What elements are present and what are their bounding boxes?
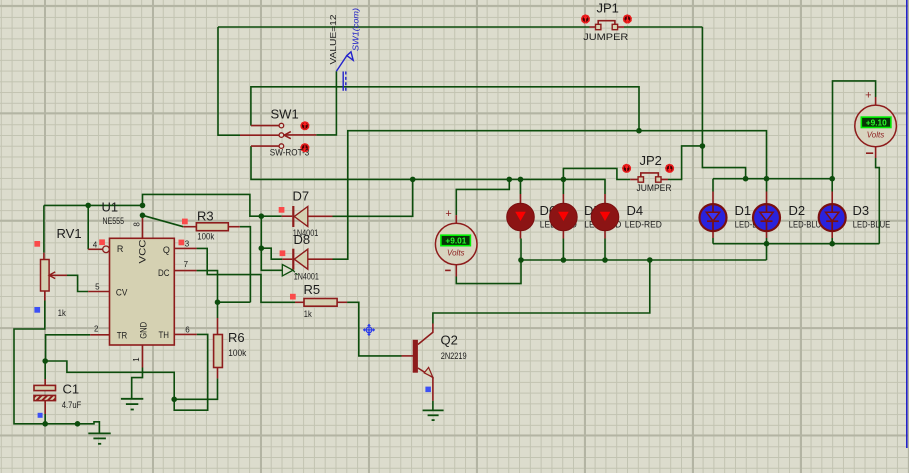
marker red square R3 (182, 219, 188, 225)
pin stub U1 pin8 (142, 215, 144, 238)
wire TH pin6 down to node (174, 334, 208, 410)
pin stub SW1 top contact (251, 125, 279, 127)
svg-text:1k: 1k (58, 308, 66, 319)
wire SW1 common drop (218, 27, 240, 135)
jumper JP2 right pin (656, 177, 661, 182)
pin stub RV1 top (43, 253, 45, 260)
svg-text:4.7uF: 4.7uF (62, 400, 82, 411)
pin stub VM2 plus (875, 97, 877, 105)
svg-text:Q2: Q2 (441, 333, 458, 348)
pin stub U1 pin7 (174, 270, 196, 272)
pin stub JP1 left (590, 26, 596, 28)
sheet border (906, 0, 908, 448)
wire blue rail to red rail link (766, 244, 768, 260)
pin stub SW1 bottom contact (251, 145, 279, 147)
pin stub D3 bottom (831, 231, 833, 239)
junction D8 cathode (259, 245, 265, 251)
pin stub D5 top (562, 194, 564, 204)
pin stub D6 bottom (520, 230, 522, 239)
wire D2 anode drop (766, 179, 768, 192)
wire D1 cathode rise (712, 238, 714, 244)
junction VM1 tap (507, 177, 513, 183)
svg-text:R5: R5 (304, 282, 321, 297)
wire voltmeter VM1 plus jog (456, 179, 509, 215)
wire RV1 bottom left rail to C1 bottom (14, 301, 45, 424)
pin stub VM2 minus (875, 147, 877, 158)
wire R5 to Q2 base (347, 302, 401, 356)
pin stub D2 bottom (766, 231, 768, 239)
pin stub RV1 wiper (49, 274, 67, 276)
svg-text:D3: D3 (853, 203, 870, 218)
svg-text:1N4001: 1N4001 (294, 271, 319, 282)
pin stub R5 left (295, 301, 304, 303)
svg-text:3: 3 (185, 239, 190, 248)
diode D7 cathode bar (292, 206, 294, 227)
svg-text:CV: CV (116, 288, 128, 298)
wire top rail JP1 right (624, 26, 702, 28)
switch SW1 middle contact (279, 133, 284, 138)
pin stub D4 bottom (604, 230, 606, 239)
LED D5 red (550, 203, 578, 231)
pin stub VM1 minus (455, 265, 457, 277)
jumper JP1 left pin (596, 24, 601, 29)
marker red square D7 (279, 207, 285, 213)
junction Q2 collector (647, 257, 653, 263)
pin stub D2 top (766, 192, 768, 205)
svg-text:LED-RED: LED-RED (625, 220, 662, 231)
wire voltmeter VM2 minus return (876, 158, 880, 244)
pin stub JP2 right (661, 179, 668, 181)
wire D7 anode to top net (333, 179, 413, 216)
op-amp U1 NE555 body (110, 238, 175, 345)
svg-text:D8: D8 (294, 232, 311, 247)
marker origin crosshair (364, 324, 375, 335)
junction blue rail feed (743, 176, 749, 182)
junction D6 anode (518, 177, 524, 183)
svg-text:1: 1 (132, 357, 141, 362)
LED D6 red (507, 203, 535, 231)
resistor R3 body (196, 223, 228, 231)
JP2 red pad marker right (665, 164, 675, 174)
svg-text:D1: D1 (735, 203, 752, 218)
pin stub VM1 plus (455, 215, 457, 223)
junction D3 anode (829, 176, 835, 182)
pin stub R3 left (183, 226, 196, 228)
Q2 emitter lead (418, 368, 433, 401)
svg-text:100k: 100k (228, 348, 246, 359)
junction pin7-R3-R6 (215, 299, 221, 305)
wire voltmeter VM1 minus return (456, 260, 521, 284)
wire voltmeter VM2 plus (833, 81, 876, 179)
pin stub U1 pin1 (142, 345, 144, 368)
marker red square RV1 (34, 241, 40, 247)
wire pin2 TR to C1 node (46, 335, 91, 361)
wire pin7 branch to R3 (218, 301, 251, 303)
svg-text:SW-ROT-3: SW-ROT-3 (270, 148, 310, 159)
LED D1 blue (700, 204, 727, 231)
switch SW1 top contact (279, 123, 284, 128)
pin stub JP1 right (618, 26, 625, 28)
pin stub R5 right (337, 301, 347, 303)
junction D5 anode JP2 (561, 177, 567, 183)
svg-text:C1: C1 (63, 381, 80, 396)
svg-text:LED-BLUE: LED-BLUE (853, 220, 891, 231)
svg-text:7: 7 (184, 260, 189, 269)
switch SW1 bottom contact (279, 144, 284, 149)
svg-text:TH: TH (159, 330, 170, 340)
resistor R6 body (214, 335, 223, 368)
JP1 red pad marker left (581, 14, 591, 24)
wire JP2 left jog (563, 168, 630, 179)
wire Q2 collector to LED return rail (433, 260, 650, 324)
junction D6 cathode VM1 (518, 257, 524, 263)
D8 label leader dash (293, 271, 297, 275)
SW1 selector shaft (284, 134, 316, 136)
svg-text:D4: D4 (627, 203, 644, 218)
junction C1 bottom (42, 421, 48, 427)
pin stub D7 anode (308, 215, 333, 217)
svg-text:JUMPER: JUMPER (583, 32, 628, 43)
wire top net down to blue LED rail (702, 27, 745, 179)
wire blue LED anode rail (713, 178, 832, 180)
pin stub R6 top (217, 318, 219, 335)
pin stub SW1 middle contact (240, 134, 279, 136)
marker red square R5 (290, 294, 296, 300)
STUBS (44, 21, 876, 414)
svg-text:8: 8 (133, 222, 142, 227)
wire VCC rail to U1 (44, 204, 143, 206)
pin stub R6 bottom (217, 368, 219, 379)
marker red square D8 (280, 250, 286, 256)
wire JP2 right to vertical (668, 146, 702, 180)
wire pin3 Q output to R5 (197, 248, 295, 302)
svg-text:SW1: SW1 (271, 107, 299, 122)
ground Q2 emitter (423, 410, 444, 420)
terminal SW1(com) symbol (336, 52, 353, 91)
pin stub D6 top (520, 194, 522, 204)
svg-text:1k: 1k (304, 309, 312, 320)
wire Q2 emitter to ground (432, 401, 434, 411)
wire D1 anode drop (712, 179, 714, 192)
svg-text:D2: D2 (789, 203, 806, 218)
ground C1 (88, 433, 110, 443)
junction D5 cathode (561, 257, 567, 263)
junction JP1 branch (636, 128, 642, 134)
pin stub D5 bottom (562, 230, 564, 239)
marker blue square C1 (38, 413, 43, 418)
svg-text:NE555: NE555 (103, 216, 125, 227)
JP2 link bar (641, 173, 659, 177)
LED D4 red (591, 203, 619, 231)
wire C1 bottom node to ground (45, 422, 99, 434)
wire top rail JP1 left (218, 26, 590, 28)
wire RV1 top to VCC rail (43, 205, 45, 252)
pin stub RV1 bottom (44, 291, 46, 301)
junction D2 anode (764, 176, 770, 182)
pin stub D7 cathode (282, 215, 293, 217)
LEDS drawn with labels interleaved for occlusion (507, 203, 891, 231)
wire D8 label spur (261, 248, 282, 270)
capacitor C1 bottom plate (34, 395, 56, 400)
svg-text:R3: R3 (197, 209, 214, 224)
pin stub D8 anode (308, 258, 333, 260)
pin stub C1 top (44, 379, 46, 385)
svg-text:JUMPER: JUMPER (637, 183, 672, 194)
wire RV1 wiper to pin5 CV (67, 275, 88, 291)
junction D2 cathode (764, 241, 770, 247)
voltmeter VM2 (855, 90, 897, 154)
svg-text:SW1(com): SW1(com) (351, 8, 361, 51)
voltmeter VM1 (435, 208, 477, 271)
wire D8 cathode jog (261, 248, 282, 259)
svg-text:Volts: Volts (447, 248, 465, 257)
potentiometer RV1 body (41, 260, 50, 292)
LED D3 blue (819, 204, 846, 231)
svg-text:+: + (445, 208, 451, 220)
ground pin1 (121, 399, 143, 410)
svg-text:RV1: RV1 (57, 226, 82, 241)
wire D6 cathode rise (520, 239, 522, 261)
svg-text:+9.10: +9.10 (866, 118, 887, 128)
junction D3 cathode (829, 241, 835, 247)
svg-text:2N2219: 2N2219 (441, 351, 467, 362)
wire pin7 to R6 (197, 271, 218, 318)
svg-text:4: 4 (93, 240, 98, 249)
svg-text:JP2: JP2 (640, 153, 662, 168)
pin stub U1 pin4 (88, 248, 103, 250)
Q2 emitter arrowhead (424, 367, 433, 377)
wire D6 anode drop (520, 179, 522, 194)
svg-text:R: R (117, 244, 124, 254)
wire node to R6 bottom (174, 378, 217, 399)
SW1 selector arrowhead (284, 132, 291, 139)
SW1 red pad marker top (300, 121, 310, 131)
junction TH-R6 node (171, 397, 177, 403)
wire blue LED cathode rail (713, 243, 879, 245)
diode D8 triangle (294, 249, 308, 269)
svg-text:TR: TR (117, 330, 128, 340)
junction VCC-pin8 top (140, 203, 146, 209)
svg-text:+9.01: +9.01 (445, 236, 466, 246)
junction TR-C1 (42, 358, 48, 364)
junction D7 cathode (259, 213, 265, 219)
svg-text:100k: 100k (197, 231, 214, 242)
diode D8 cathode bar (292, 249, 294, 270)
svg-text:+: + (865, 90, 871, 102)
jumper JP2 left pin (638, 177, 643, 182)
svg-text:VCC: VCC (137, 239, 147, 264)
svg-text:5: 5 (95, 283, 100, 292)
resistor R5 body (304, 299, 337, 307)
svg-text:JP1: JP1 (597, 0, 619, 15)
pin stub D1 bottom (712, 231, 714, 239)
U1 pin4 inversion bubble (103, 246, 110, 253)
svg-text:6: 6 (185, 326, 190, 335)
junction D7 anode rail (410, 177, 416, 183)
wire node D7-D8 cathode link (260, 216, 262, 248)
wire node to C1 top (44, 361, 46, 379)
wire D2 cathode rise (766, 238, 768, 244)
svg-text:D7: D7 (293, 189, 310, 204)
wire SW1 top contact feed (251, 87, 639, 131)
svg-text:R6: R6 (228, 330, 245, 345)
RV1 wiper arrowhead (49, 272, 55, 279)
JP2 red pad marker left (622, 164, 632, 174)
capacitor C1 top plate (34, 385, 56, 390)
pin stub D8 cathode (282, 258, 292, 260)
wire D3 cathode rise (831, 238, 833, 244)
pin stub U1 pin5 (88, 291, 109, 293)
wire R3 diagonal to VCC (143, 215, 184, 226)
wire pin1 GND to ground (132, 368, 143, 399)
svg-text:U1: U1 (102, 200, 119, 215)
pin stub D1 top (712, 192, 714, 205)
jumper JP1 right pin (612, 24, 617, 29)
SW1 red pad marker bottom (300, 143, 310, 153)
pin stub R3 right (228, 226, 240, 228)
LED D2 blue (753, 204, 780, 231)
svg-text:VALUE=12: VALUE=12 (328, 14, 338, 64)
wire D5 cathode rise (562, 239, 564, 261)
wire terminal vertical to SW1 selector (316, 71, 336, 135)
wire R3 right down (240, 227, 251, 303)
transistor Q2 base bar (413, 340, 418, 373)
wire pin4 reset drop (87, 205, 89, 249)
Q2 base lead (402, 355, 414, 357)
wire D5 anode drop (562, 179, 564, 194)
pin stub C1 bottom (44, 401, 46, 414)
Q2 collector lead (418, 324, 433, 345)
junction D4 cathode (602, 257, 608, 263)
svg-text:Volts: Volts (867, 130, 885, 139)
wire VCC jog to D7 cathode (143, 194, 282, 216)
wire D4 cathode rise (604, 239, 606, 261)
wire TR node to TH net (45, 361, 174, 399)
diode D7 triangle (294, 207, 308, 227)
pin stub U1 pin2 (90, 334, 109, 336)
pin stub D4 top (604, 194, 606, 204)
junction JP2 right (700, 143, 706, 149)
svg-text:2: 2 (94, 325, 99, 334)
svg-text:Q: Q (163, 245, 170, 255)
JP1 red pad marker right (623, 14, 633, 24)
svg-text:DC: DC (158, 268, 170, 278)
pin stub JP2 left (630, 179, 638, 181)
junction C1 ground branch (75, 421, 81, 427)
junction pin8-R3 (140, 213, 146, 219)
marker red square pin3 (179, 240, 185, 246)
wire D8 anode up to SW1 wiper net (333, 131, 767, 260)
marker red square pin4 (99, 239, 105, 245)
wire D3 anode drop (831, 179, 833, 192)
svg-text:GND: GND (138, 321, 148, 338)
D8 label leader arrow (282, 265, 293, 276)
pin stub U1 pin3 (174, 247, 196, 249)
junction VCC-pin4 (85, 203, 91, 209)
marker blue square Q2 (425, 387, 431, 393)
pin stub U1 pin6 (174, 333, 197, 335)
JP1 link bar (598, 21, 615, 25)
pin stub D3 top (831, 192, 833, 205)
wire red LED cathode rail (521, 259, 767, 261)
wire SW1 bottom contact to LED anode rail (251, 146, 605, 194)
wire C1 bottom to node (44, 414, 46, 424)
marker blue square RV1 (34, 307, 40, 313)
